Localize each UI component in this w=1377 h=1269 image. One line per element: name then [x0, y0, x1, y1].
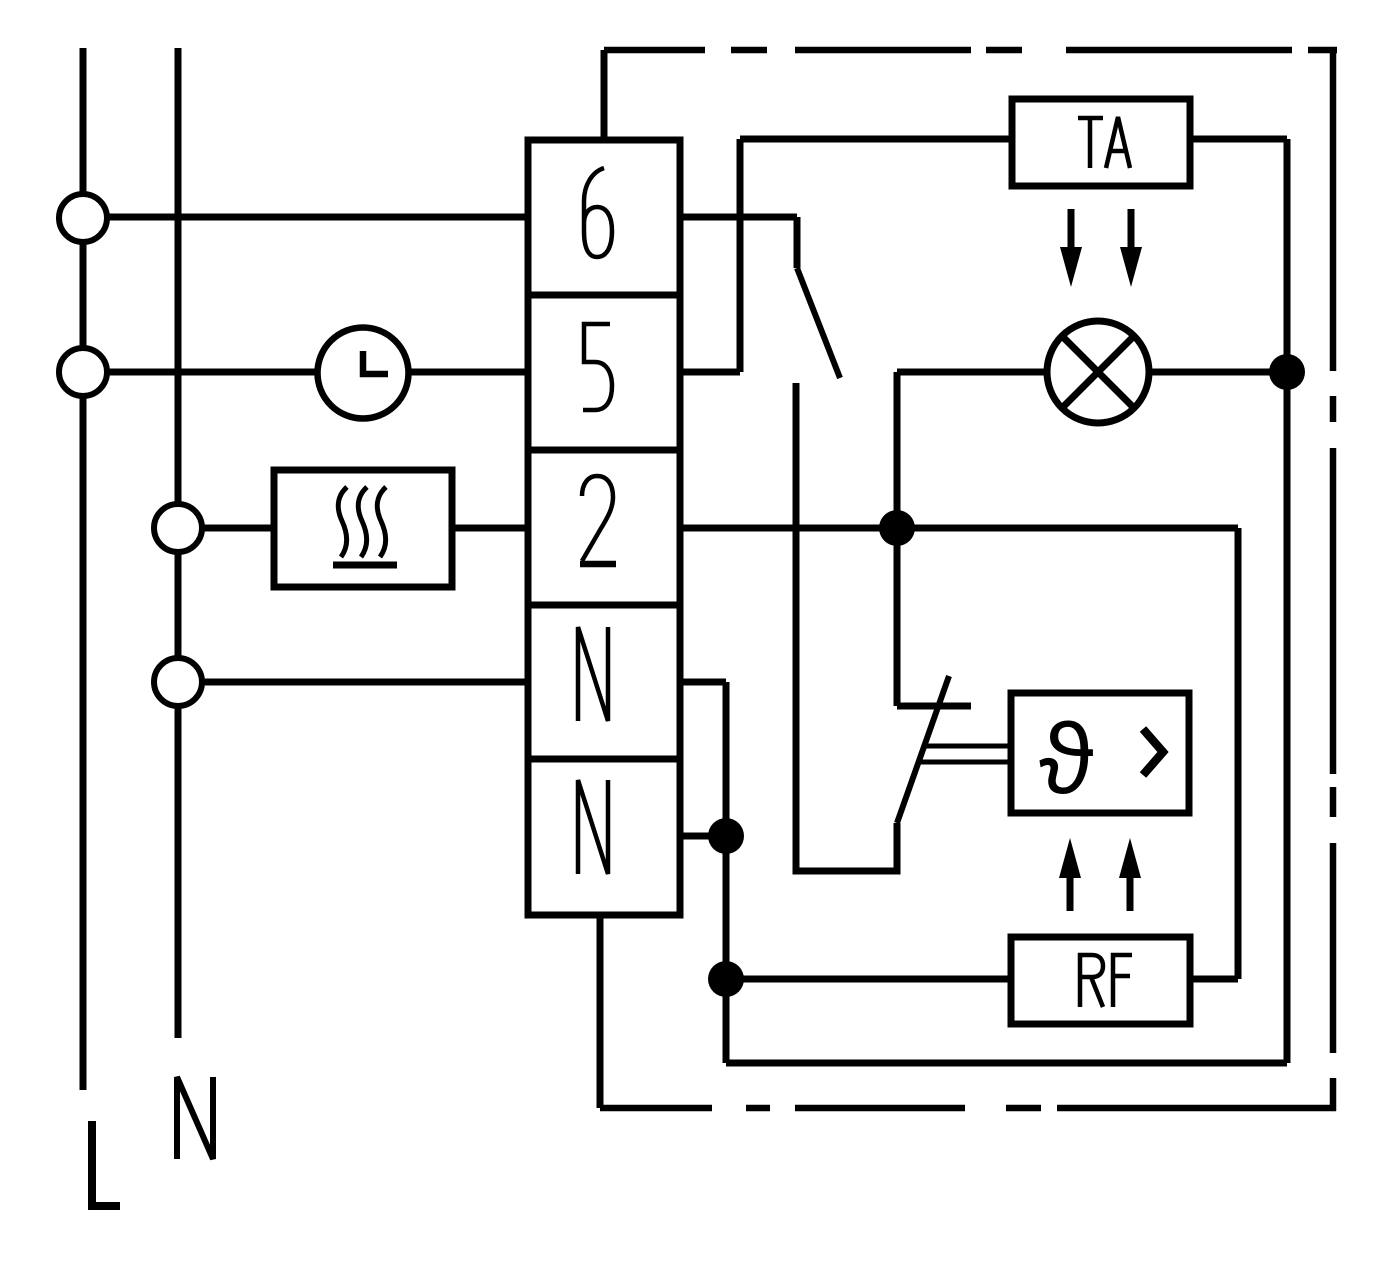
svg-text:ϑ: ϑ — [1039, 703, 1094, 815]
